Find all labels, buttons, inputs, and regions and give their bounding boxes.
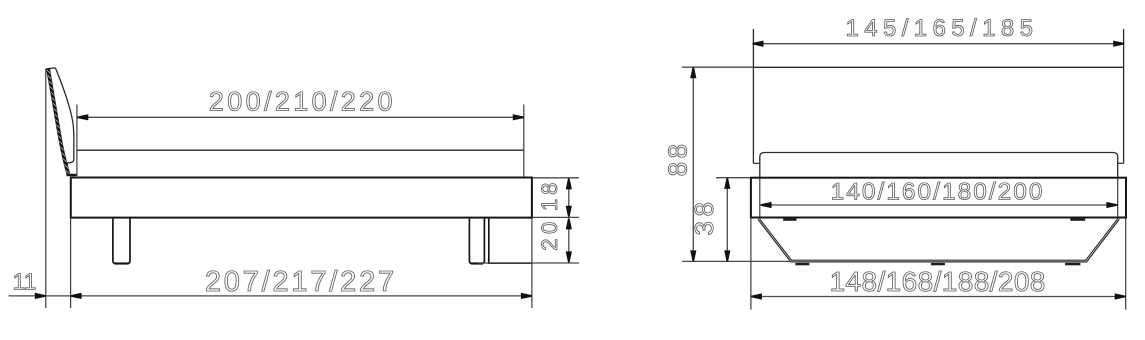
dim line 148 [751, 296, 1126, 298]
left leg [113, 219, 130, 264]
mattress side ext lines through frame (140 dim) [759, 178, 761, 220]
foot pad middle [931, 263, 945, 265]
svg-text:88: 88 [662, 140, 692, 176]
arrow 148 right [1115, 293, 1126, 299]
arrow 148 left [751, 293, 762, 299]
right leg [469, 219, 484, 264]
leg stub left behind base [783, 218, 796, 221]
ext line frame bottom right (for 18/20) [533, 216, 579, 218]
svg-text:145/165/185: 145/165/185 [845, 15, 1038, 42]
base trapezoid inner line [760, 219, 1117, 260]
arrow 20 up [566, 218, 572, 229]
frame front rectangle [751, 178, 1126, 218]
arrow 20 down [566, 251, 572, 262]
headboard bottom edge right fragment [1118, 162, 1124, 164]
arrow 207 right [521, 293, 532, 299]
dim line 140 [761, 204, 1118, 206]
headboard right edge (+ ext up) [1123, 29, 1125, 163]
foot pad right [1065, 263, 1080, 265]
arrow 200 right [513, 114, 524, 120]
arrow 145 right [1113, 41, 1124, 47]
arrow 88 up [690, 67, 696, 78]
leg stub right behind base [1070, 218, 1085, 221]
headboard top edge [46, 68, 56, 69]
left leg bottom emphasis [115, 262, 129, 264]
dim line 18 [568, 178, 570, 216]
frame right ext line down [1125, 218, 1127, 310]
arrow 38 up [724, 178, 730, 189]
headboard bottom edge [66, 174, 76, 176]
arrow 88 down [690, 250, 696, 261]
arrow 11 left (outside, pointing right) [35, 293, 46, 299]
arrow 18 up [566, 178, 572, 189]
ext line frame top right (for 18) [533, 177, 579, 179]
arrow 38 down [724, 250, 730, 261]
bottom dim line (11 + 207 shared) [9, 295, 532, 297]
ext line leg bottom right (for 20) [478, 262, 579, 264]
arrow 140 left [761, 202, 772, 208]
dim line 88 [692, 67, 694, 261]
svg-text:18: 18 [537, 179, 562, 211]
headboard bottom edge left fragment [753, 162, 759, 164]
dim line 38 [726, 178, 728, 262]
frame right edge extension line down [531, 218, 533, 308]
ext line 38 top [716, 177, 750, 179]
frame side rail rectangle [71, 178, 532, 218]
right leg bottom emphasis [471, 262, 483, 264]
headboard top edge [753, 66, 1123, 68]
mattress right edge (also ext line for 200 dim) [523, 105, 525, 177]
svg-text:200/210/220: 200/210/220 [209, 87, 396, 117]
svg-text:11: 11 [13, 268, 37, 294]
headboard back edge + extension line down to bottom dim [45, 69, 47, 308]
dim line 20 [568, 218, 570, 262]
headboard left edge (+ ext up) [752, 29, 754, 163]
right end panel box [489, 219, 532, 264]
svg-text:20: 20 [537, 217, 562, 250]
mattress front outline with rounded top corners [760, 153, 1118, 178]
foot pad left [795, 263, 809, 265]
svg-text:140/160/180/200: 140/160/180/200 [831, 178, 1045, 205]
svg-text:207/217/227: 207/217/227 [205, 266, 397, 298]
frame left ext line down [750, 218, 752, 310]
arrow 145 left [753, 41, 764, 47]
ext line 88/38 bottom [682, 260, 791, 262]
arrow 200 left [77, 114, 88, 120]
arrow 140 right [1106, 202, 1117, 208]
svg-text:148/168/188/208: 148/168/188/208 [830, 266, 1046, 297]
base trapezoid outer [758, 219, 1119, 262]
headboard cushion front curve [55, 68, 73, 174]
mattress left edge (also ext line for 200 dim) [76, 105, 78, 177]
headboard hatched panel band [46, 69, 70, 174]
arrow at frame left (pointing left) [71, 293, 82, 299]
svg-text:38: 38 [689, 198, 719, 236]
mattress top edge [77, 149, 524, 151]
arrow 18 down [566, 206, 572, 217]
ext line 88 top [682, 66, 753, 68]
dim line 145 [753, 43, 1125, 45]
dim line 200 [77, 116, 524, 118]
frame left edge extension line down [70, 218, 72, 308]
